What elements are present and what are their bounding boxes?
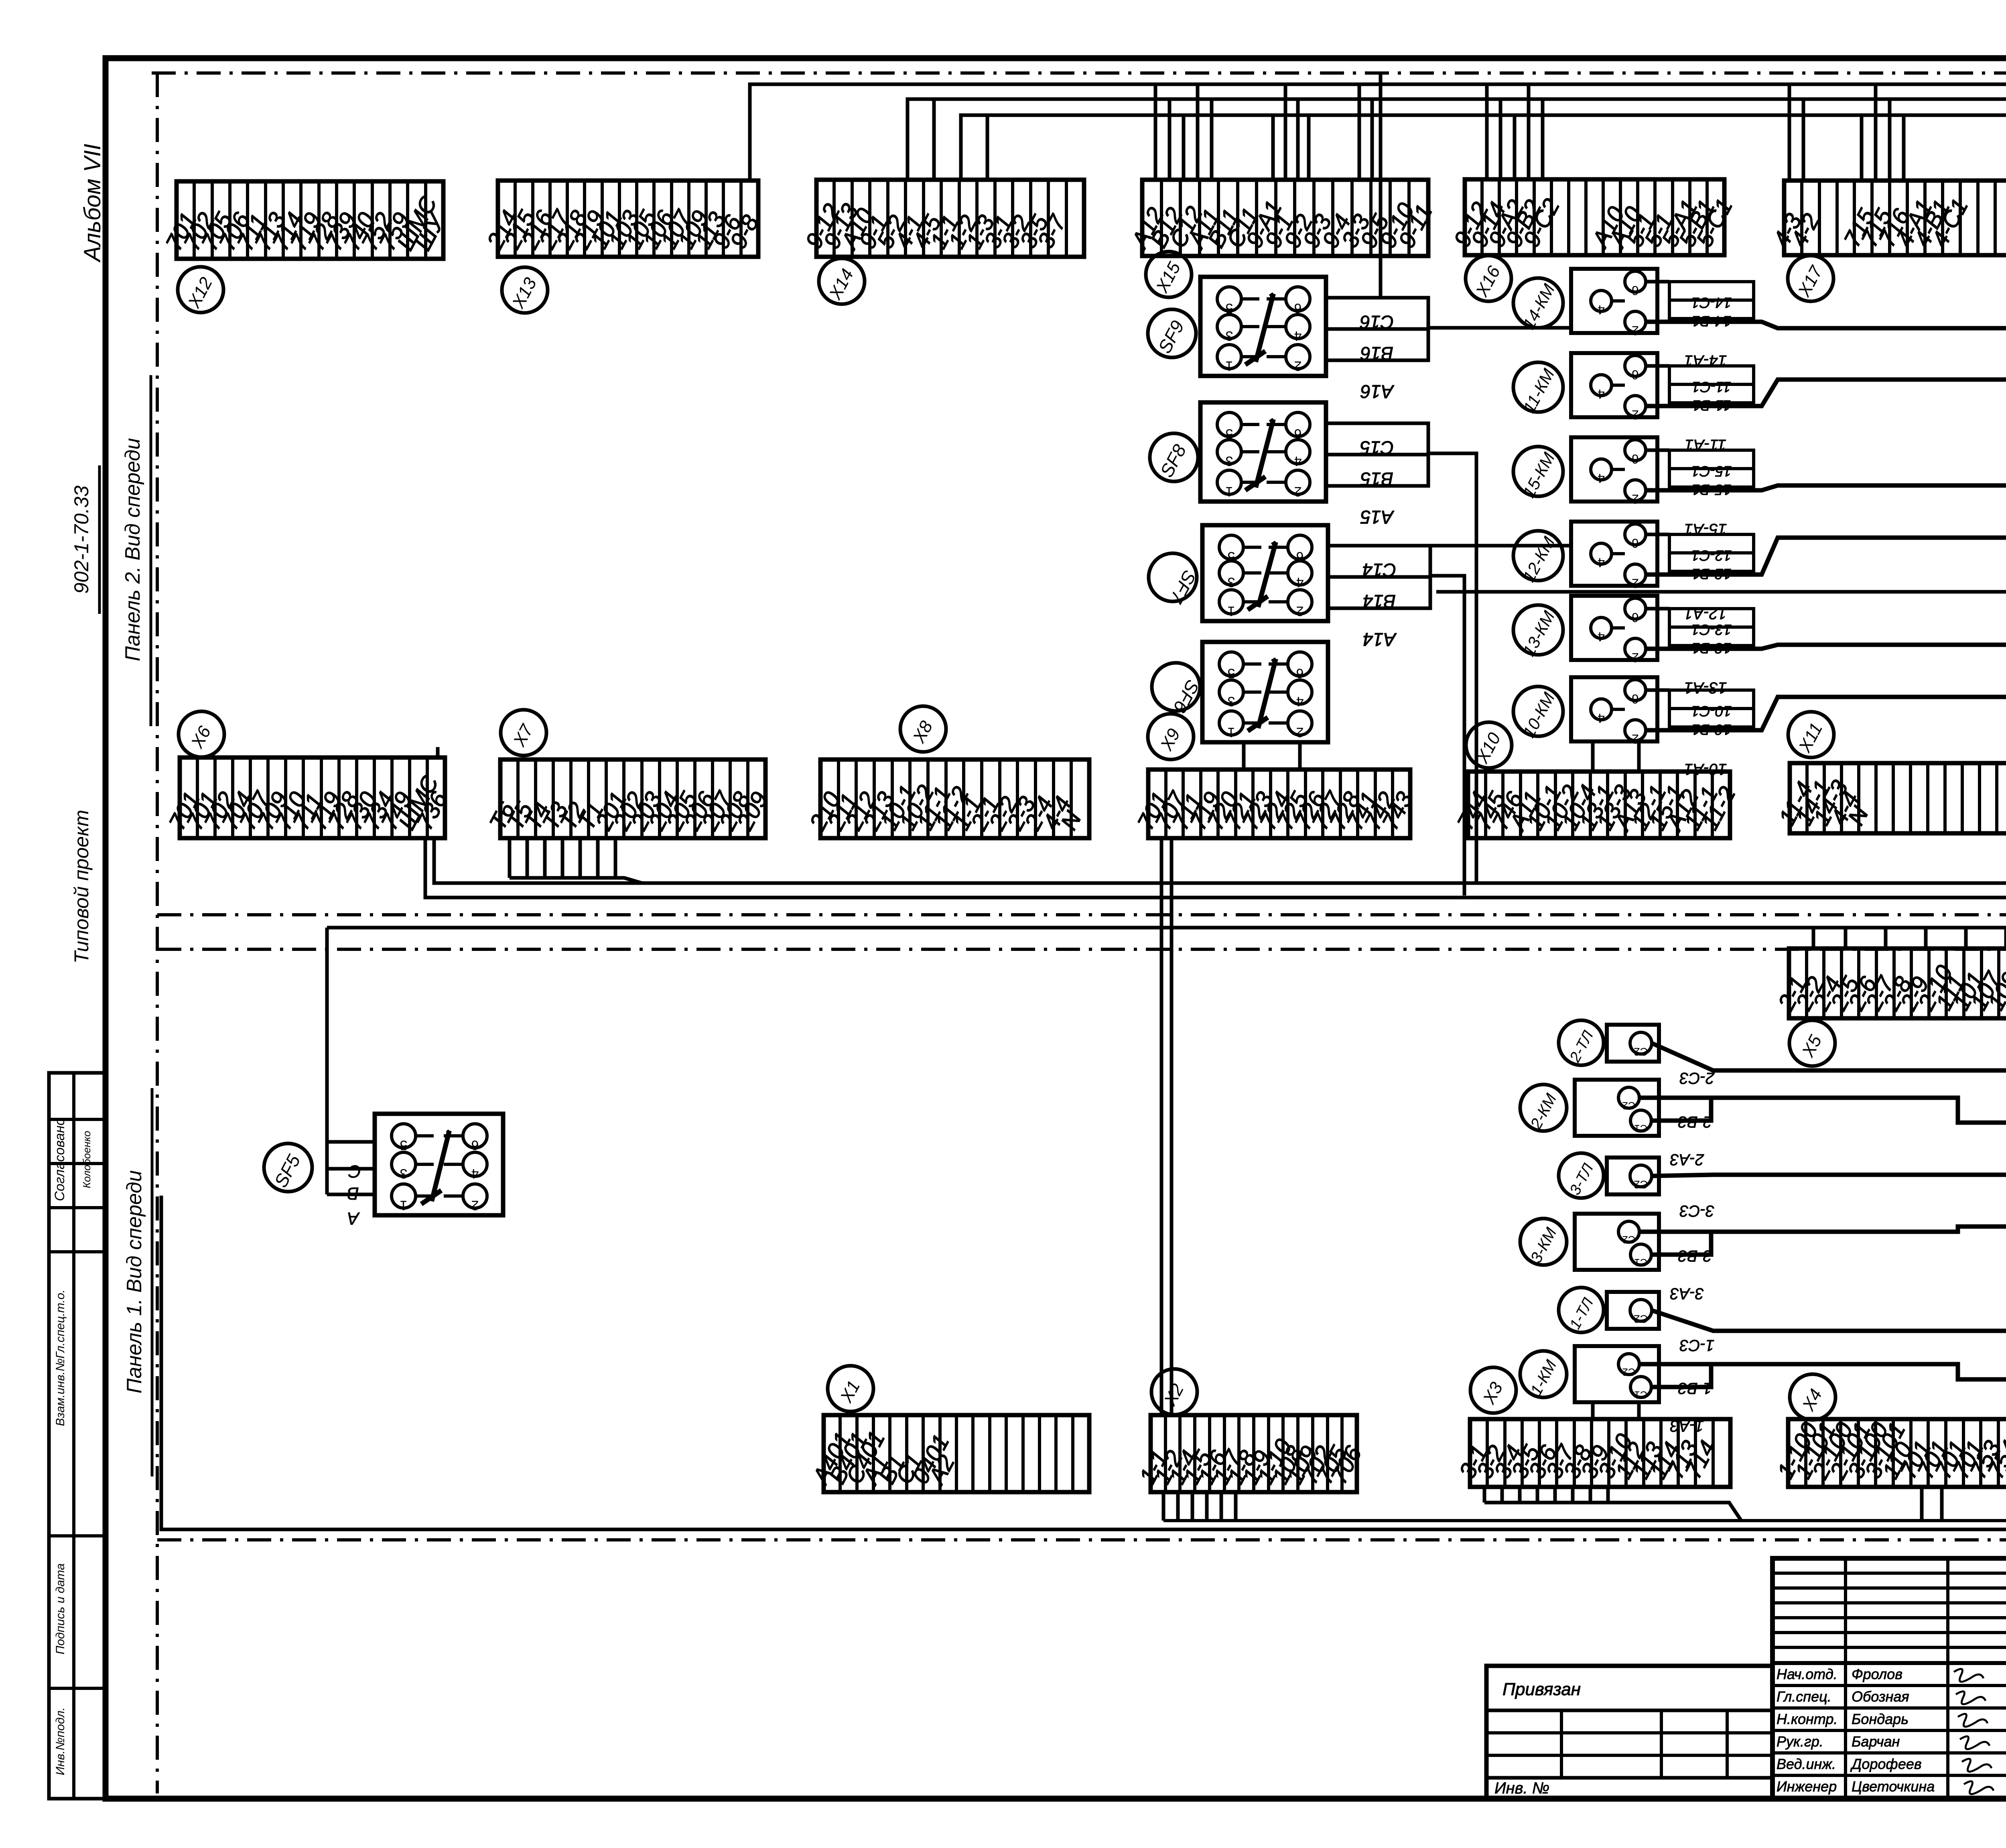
left margin stamp table [49,1073,106,1799]
svg-text:1: 1 [1228,725,1235,740]
svg-text:Колобоенко: Колобоенко [81,1131,93,1188]
wire drop to X17 [1788,84,1791,181]
wire X7 stub [579,838,582,878]
svg-text:Барчан: Барчан [1852,1733,1900,1750]
panel 1 boundary dash-dot bottom [157,1538,2006,1541]
wire drop to X15 [1168,99,1172,180]
svg-text:6: 6 [471,1137,479,1153]
wire [1651,1232,1711,1255]
wire drop to X16 [1485,84,1489,179]
wire to Н4 [1436,590,2006,594]
svg-text:4: 4 [1294,328,1302,343]
wire drop to X15 [1307,115,1311,180]
terminal block X11 [1774,763,2006,833]
svg-text:1-А3: 1-А3 [1670,1417,1704,1435]
wire drop to X15 [1210,99,1214,180]
svg-text:6: 6 [1632,536,1639,550]
contactor 10-КМ [1571,677,1657,746]
label box 11-С1 [1669,366,1754,384]
wire X3 collector [1484,1503,1741,1521]
cable label box В14 [1328,577,1430,608]
contactor 14-КМ [1571,269,1657,338]
designator circle X5 [1789,1020,1835,1066]
terminal block X2 [1134,1415,1367,1492]
wire X7 stub [526,838,529,878]
svg-text:4: 4 [1598,387,1605,401]
designator circle 3-КМ [1520,1218,1567,1266]
svg-text:4: 4 [471,1166,479,1181]
svg-text:Гл.спец.т.о.: Гл.спец.т.о. [54,1290,67,1359]
designator circle X12 [178,267,223,313]
svg-text:С2: С2 [1634,1313,1648,1325]
svg-text:15-С1: 15-С1 [1691,463,1732,479]
label box 10-С1 [1669,690,1754,709]
wire X3 stub [1606,1487,1610,1503]
svg-text:2: 2 [1632,492,1639,506]
designator circle 15-КМ [1513,447,1563,501]
wire X2 stub [1205,1492,1209,1521]
wire X3 stub [1483,1487,1486,1503]
designator circle 12-КМ [1513,531,1563,585]
designator circle X14 [819,258,865,304]
wire to bus [1639,1098,2006,1123]
wire to bus [1652,1310,2006,1331]
contactor 13-КМ [1571,596,1657,665]
designator circle X10 [1466,722,1512,768]
svg-text:6: 6 [1632,368,1639,382]
title block [1773,1558,2006,1799]
wire X2 stub [1220,1492,1223,1521]
wire X9 to X2 a [1160,838,1163,1415]
terminal block X5 [1773,948,2006,1018]
svg-text:2: 2 [471,1198,479,1213]
designator circle X15 [1146,252,1192,297]
current transformer 3-ТЛ [1607,1158,1659,1194]
wire X7 stub [614,838,617,878]
wire drop to X14 b [986,115,989,180]
svg-text:6: 6 [1632,610,1639,625]
wire X5 stub [1844,928,1848,948]
svg-text:4: 4 [1598,711,1605,725]
svg-text:14-С1: 14-С1 [1691,294,1732,311]
designator circle SF6 [1152,663,1204,716]
svg-text:Нач.отд.: Нач.отд. [1777,1666,1837,1682]
wire to bus [1646,322,2006,328]
wire X5 stub [2004,928,2006,948]
contactor 12-КМ [1571,522,1657,591]
wire X2 stub [1191,1492,1194,1521]
wire [1646,688,1669,692]
designator circle SF5 [264,1143,312,1192]
svg-text:2: 2 [1632,408,1639,422]
wire to bus [1646,538,2006,575]
wire drop to X17 [1888,99,1892,181]
svg-text:2-С3: 2-С3 [1680,1069,1715,1087]
circuit breaker SF9 [1200,277,1326,376]
designator circle 3-ТЛ [1559,1153,1604,1198]
wire X3 stub [1553,1487,1557,1503]
terminal block X10 [1452,772,1741,838]
designator circle 14-КМ [1513,278,1563,332]
svg-text:1-С3: 1-С3 [1680,1336,1715,1354]
wire drop to X16 [1527,84,1531,179]
wire drop to X15 [1370,99,1374,180]
terminal block X6 [164,757,453,838]
designator circle X7 [501,710,546,755]
cable label box В16 [1326,329,1428,360]
svg-text:3: 3 [1226,453,1233,469]
designator circle 2-ТЛ [1559,1020,1604,1065]
label box 12-В1 [1669,553,1754,571]
svg-text:4: 4 [1598,630,1605,644]
contactor 3-КМ [1575,1214,1659,1270]
wire drop to X15 [1284,84,1287,180]
svg-text:Вед.инж.: Вед.инж. [1777,1756,1836,1772]
cable label box С15 [1326,423,1428,455]
svg-text:Панель 2. Вид спереди: Панель 2. Вид спереди [121,438,144,662]
wire drop to X15 [1296,99,1300,180]
svg-text:3-С3: 3-С3 [1680,1202,1715,1220]
circuit breaker SF6 [1202,642,1328,742]
wire SF7 out feed [1430,576,1464,896]
wire to bus [1646,380,2006,406]
wire SF6 to X9 [1242,742,1246,770]
svg-text:4: 4 [1294,453,1302,469]
svg-text:С2: С2 [1622,1366,1635,1378]
svg-text:2: 2 [1632,576,1639,591]
svg-text:Фролов: Фролов [1852,1666,1902,1682]
wire X7 stub [508,838,512,878]
wire X7 stub [561,838,564,878]
label box 14-В1 [1669,300,1754,319]
svg-text:Обозная: Обозная [1852,1688,1909,1705]
panel 1 boundary dash-dot top [157,948,2006,951]
svg-text:Панель 1. Вид спереди: Панель 1. Вид спереди [123,1170,146,1394]
wire X7 collector [510,878,642,883]
wire X7 stub [543,838,547,878]
wire to bus [1652,1175,2006,1176]
svg-text:В16: В16 [1360,343,1393,364]
wire drop to X16 [1513,115,1517,179]
svg-text:Согласовано: Согласовано [52,1118,67,1201]
label box 14-С1 [1669,282,1754,300]
svg-text:Инв. №: Инв. № [1494,1779,1549,1797]
wire drop to X15 [1358,84,1361,180]
svg-text:Рук.гр.: Рук.гр. [1777,1733,1823,1750]
svg-text:13-С1: 13-С1 [1691,621,1732,638]
wire SF5 riser [325,928,329,1194]
wire 1-КМ to X3 [1591,1402,1595,1419]
designator circle SF8 [1150,433,1198,481]
designator circle X3 [1470,1367,1516,1413]
current transformer 2-ТЛ [1607,1025,1659,1062]
wire X3 stub [1536,1487,1539,1503]
designator circle 11-КМ [1513,362,1563,416]
wire X5 stub [1924,928,1928,948]
designator circle 1-ТЛ [1559,1288,1604,1332]
designator circle 2-КМ [1520,1084,1567,1132]
attachment table [1486,1666,1773,1799]
svg-text:Альбом VII: Альбом VII [79,144,106,263]
svg-text:Гл.спец.: Гл.спец. [1777,1688,1831,1705]
wire [1646,364,1669,368]
circuit breaker SF5 [375,1114,503,1215]
contactor 11-КМ [1571,353,1657,422]
svg-text:12-С1: 12-С1 [1691,547,1732,564]
cable label box С16 [1326,298,1428,329]
wire drop to X16 [1499,99,1502,179]
designator circle X17 [1788,256,1833,301]
terminal block X8 [804,760,1089,838]
terminal block X4 [1772,1418,2006,1487]
designator circle SF7 [1149,553,1200,607]
svg-text:Бондарь: Бондарь [1852,1711,1909,1727]
svg-text:3: 3 [1228,575,1235,590]
svg-text:2: 2 [1294,484,1302,499]
wire drop to X14 [932,99,936,180]
svg-text:Цветочкина: Цветочкина [1852,1778,1935,1795]
designator circle X13 [502,267,548,313]
circuit breaker SF8 [1200,402,1326,502]
designator circle 13-КМ [1513,605,1563,659]
svg-text:3: 3 [400,1166,408,1181]
wire X6 stub top [436,747,440,757]
contactor 1-КМ [1575,1346,1659,1402]
wire top feeder 1 [750,84,2006,181]
wire X5 stub [1884,928,1888,948]
wire drop to X15 [1182,115,1186,180]
wire drop to X17 [1860,115,1864,181]
svg-text:В15: В15 [1360,469,1393,489]
svg-text:С1: С1 [1634,1257,1647,1269]
label box 13-В1 [1669,627,1754,646]
wire X2 stub [1176,1492,1180,1521]
svg-text:1: 1 [1226,484,1233,499]
terminal block X15 [1126,180,1437,256]
wire X4 stub [1920,1487,1924,1521]
label box 13-С1 [1669,609,1754,627]
wire drop to X17 [1802,99,1805,181]
wire X2 stub [1234,1492,1238,1521]
svg-text:Дорофеев: Дорофеев [1850,1756,1922,1772]
wire drop to X15 [1154,84,1157,180]
wire X3 stub [1589,1487,1592,1503]
svg-text:4: 4 [1598,303,1605,317]
terminal block X17 [1768,181,2006,255]
svg-text:Инв.№подл.: Инв.№подл. [54,1707,67,1775]
svg-text:Привязан: Привязан [1502,1679,1581,1699]
terminal block X16 [1449,179,1738,255]
wire to bus [1646,485,2006,490]
wire mid band 3 [327,926,2006,930]
svg-text:10-А1: 10-А1 [1684,760,1727,778]
svg-text:6: 6 [1632,283,1639,298]
panel 2 boundary dash-dot top [152,71,2006,75]
wire to bus [1639,1227,2006,1232]
contactor 15-КМ [1571,437,1657,506]
svg-text:2: 2 [1296,603,1304,619]
wire [1646,607,1669,611]
wire SF8 out feed [1428,453,1476,883]
wire 10-КМ to X10 b [1637,741,1641,772]
wire top feeder 3 [961,115,2006,184]
designator circle X2 [1151,1369,1197,1415]
svg-text:С2: С2 [1634,1046,1648,1058]
terminal block X9 [1132,770,1418,838]
circuit breaker SF7 [1202,525,1328,621]
svg-text:А15: А15 [1360,507,1395,528]
designator circle X16 [1466,256,1511,301]
svg-text:3: 3 [1228,694,1235,709]
svg-text:Взам.инв.№: Взам.инв.№ [54,1359,67,1426]
terminal block X1 [807,1415,1089,1492]
svg-text:2: 2 [1632,323,1639,338]
wire to bus [1639,1364,2006,1379]
wire [1646,449,1669,452]
svg-text:А16: А16 [1360,381,1395,402]
svg-text:4: 4 [1598,471,1605,485]
svg-text:3-А3: 3-А3 [1670,1285,1704,1302]
wire mid band 2 [425,838,2006,898]
svg-text:Подпись и дата: Подпись и дата [54,1564,67,1655]
designator circle X1 [828,1366,873,1411]
wire SF5 in A [327,1140,375,1144]
svg-text:902-1-70.33: 902-1-70.33 [70,485,93,594]
designator circle 10-КМ [1513,686,1563,741]
wire drop to X15 [1196,84,1200,180]
svg-text:2: 2 [1296,725,1304,740]
wire X4 stub2 [1940,1487,1944,1521]
wire X3 stub [1500,1487,1504,1503]
svg-text:1: 1 [1228,603,1235,619]
svg-text:С2: С2 [1622,1100,1635,1112]
svg-text:13-А1: 13-А1 [1684,679,1727,697]
wire [1646,280,1669,284]
wire [1651,1364,1711,1387]
wire 10-КМ to X10 [1591,741,1595,772]
svg-text:А: А [347,1208,360,1228]
wire SF9 out B16 [1428,326,1571,330]
wire X5 stub [1812,928,1815,948]
label box 10-В1 [1669,709,1754,727]
designator circle X6 [179,711,224,757]
wire SF7 to 12-КМ [1430,544,1571,548]
terminal block X13 [482,181,764,257]
label box 15-С1 [1669,450,1754,469]
wire SF6 to X9 b [1298,742,1302,770]
terminal block X3 [1454,1419,1730,1487]
wire top feeder 2 [908,99,2006,180]
label box 11-В1 [1669,384,1754,403]
wire to bus [1646,697,2006,730]
designator circle X8 [900,706,946,752]
svg-text:Инженер: Инженер [1777,1778,1837,1795]
panel 2 boundary dash-dot bottom [157,913,2006,916]
wire to bus [1646,645,2006,649]
svg-text:4: 4 [1296,694,1304,709]
wire SF9 input riser [1379,73,1383,298]
svg-text:Типовой проект: Типовой проект [70,810,93,963]
wire X5 stub [1964,928,1968,948]
wire X7 stub [596,838,600,878]
svg-text:С1: С1 [1634,1389,1647,1401]
svg-text:2: 2 [1632,650,1639,665]
current transformer 1-ТЛ [1607,1292,1659,1329]
designator circle X9 [1148,714,1194,760]
terminal block X14 [800,180,1084,257]
wire X3 stub [1518,1487,1522,1503]
svg-text:4: 4 [1598,555,1605,570]
svg-text:3: 3 [1226,328,1233,343]
cable label box С14 [1328,546,1430,577]
terminal block X7 [484,760,773,838]
designator circle X4 [1790,1374,1835,1420]
wire mid band 1 [434,838,2006,883]
wire [1651,1098,1711,1121]
svg-text:6: 6 [1632,452,1639,466]
svg-text:Н.контр.: Н.контр. [1777,1711,1837,1727]
wire drop to X15 [1271,115,1275,180]
svg-text:С2: С2 [1634,1178,1648,1191]
wire to bus [1652,1043,2006,1070]
panel boundary dash-dot left [156,73,159,1793]
svg-text:11-С1: 11-С1 [1692,379,1731,395]
svg-text:С2: С2 [1622,1234,1635,1246]
svg-text:6: 6 [1632,692,1639,706]
wire SF5 in C [327,1193,375,1196]
wire drop to X17 [1902,115,1906,181]
svg-text:2-А3: 2-А3 [1670,1151,1705,1168]
wire SF5 in B [327,1167,375,1171]
svg-text:2: 2 [1294,358,1302,374]
wire X3 stub [1571,1487,1575,1503]
designator circle X11 [1788,712,1834,757]
svg-text:1: 1 [1226,358,1233,374]
svg-text:С: С [348,1162,361,1181]
wire drop to X16 [1541,99,1545,179]
label box 12-С1 [1669,534,1754,553]
contactor 2-КМ [1575,1080,1659,1136]
svg-text:С1: С1 [1634,1123,1647,1135]
wire bottom band 2 [161,1196,2006,1529]
wire X9 to X2 b [1170,838,1174,1415]
svg-text:10-С1: 10-С1 [1691,703,1732,719]
svg-text:А14: А14 [1363,629,1397,650]
svg-text:4: 4 [1296,575,1304,590]
cable label box В15 [1326,455,1428,486]
wire drop to X17 [1874,84,1878,181]
designator circle 1-КМ [1520,1351,1567,1398]
label box 15-В1 [1669,469,1754,487]
svg-text:1: 1 [400,1198,408,1213]
designator circle SF9 [1148,309,1196,357]
wire [1646,533,1669,536]
svg-text:В14: В14 [1363,591,1396,612]
svg-text:5: 5 [400,1137,408,1153]
wire bottom band 1 [1163,1519,2006,1522]
wire 1-КМ to X3 b [1637,1402,1641,1419]
terminal block X12 [160,181,451,259]
wire X2 stub [1162,1492,1165,1521]
